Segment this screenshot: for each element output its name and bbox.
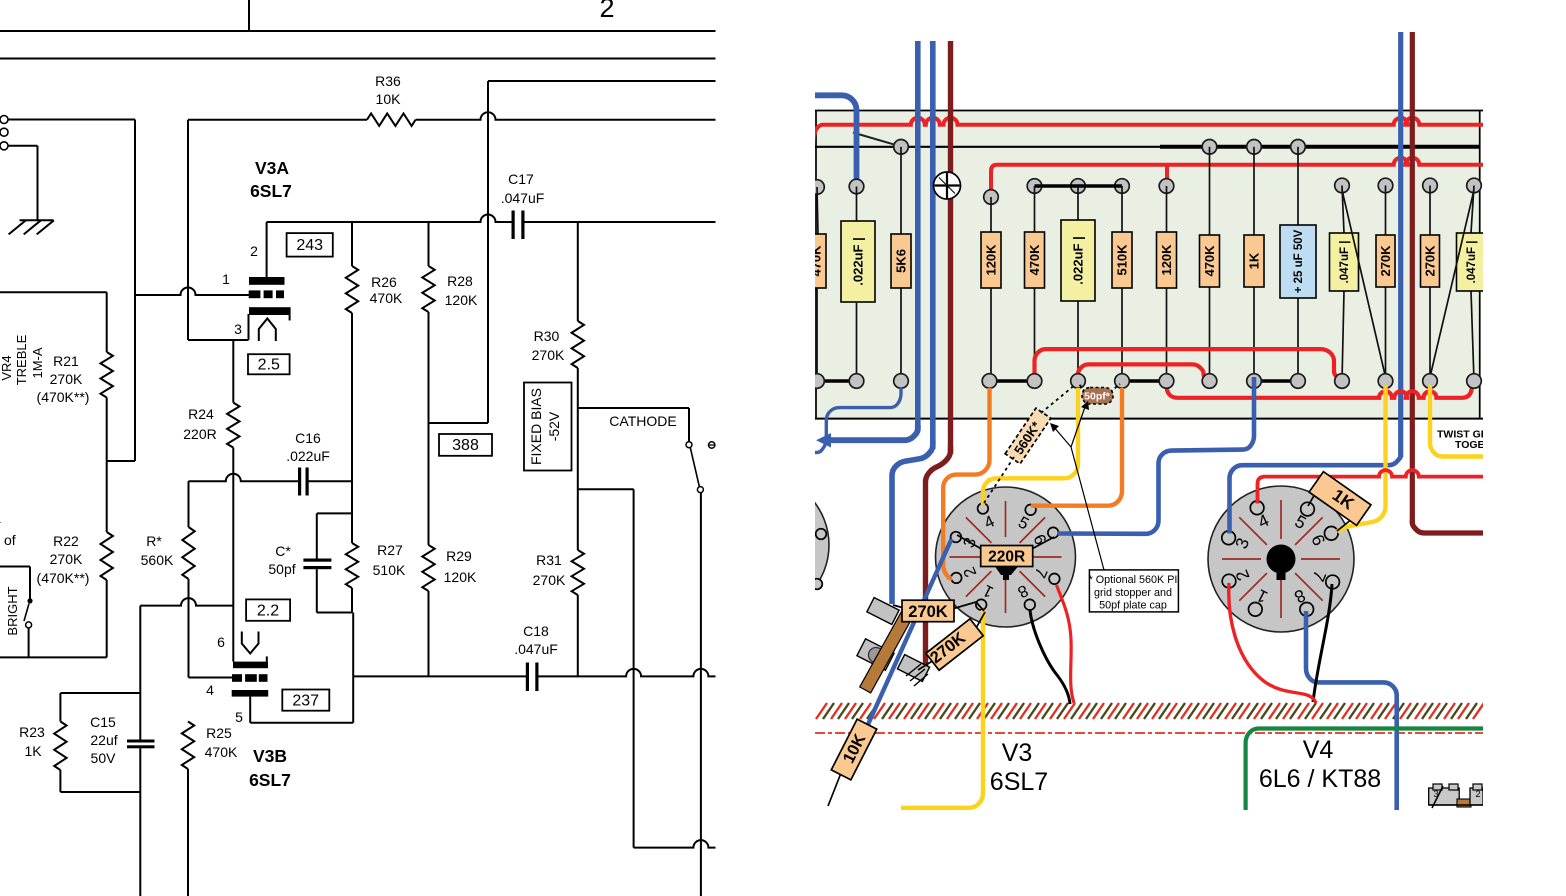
- svg-text:1K: 1K: [1247, 252, 1262, 269]
- node terminal strip lugs: [867, 598, 899, 625]
- resistor 120K a: [981, 232, 1001, 288]
- svg-text:R31: R31: [536, 552, 562, 568]
- wire green: [1246, 729, 1483, 811]
- wire yellow to V4 pin6: [1337, 385, 1386, 532]
- svg-text:220R: 220R: [988, 549, 1025, 566]
- wire output bus: [353, 675, 526, 677]
- svg-text:2.2: 2.2: [257, 603, 279, 620]
- node turret B9 bottom: [1202, 374, 1217, 389]
- wire component leads top: [817, 187, 818, 234]
- svg-text:.022uF: .022uF: [286, 448, 330, 464]
- switch CATHODE: [578, 407, 689, 409]
- node turret B11 bottom: [1291, 374, 1306, 389]
- capacitor .022uF mid: [1061, 220, 1095, 301]
- svg-text:5: 5: [235, 709, 243, 725]
- node turret T3 top: [894, 140, 909, 155]
- wire black V3 pin8: [1030, 610, 1070, 704]
- svg-text:560K: 560K: [141, 552, 174, 568]
- wire 560K dotted leads: [984, 457, 1014, 503]
- svg-text:* Optional 560K PI: * Optional 560K PI: [1089, 574, 1178, 586]
- svg-text:270K: 270K: [532, 347, 565, 363]
- wire grid of V3A: [135, 288, 249, 295]
- wire 1K leads: [1308, 487, 1319, 506]
- svg-text:V3: V3: [1002, 739, 1033, 767]
- svg-text:270K: 270K: [1423, 245, 1438, 277]
- tube V3A plate: [249, 277, 285, 285]
- svg-text:4: 4: [0, 512, 1, 528]
- svg-text:2: 2: [250, 243, 258, 259]
- svg-text:-52V: -52V: [546, 411, 562, 441]
- node 243 voltage box: [287, 233, 333, 257]
- svg-text:1M-A: 1M-A: [30, 347, 45, 378]
- node V4 center key: [1267, 545, 1296, 574]
- wire red bus top: [814, 118, 1484, 143]
- capacitor C* 50pf: [303, 559, 331, 562]
- resistor 270K b: [1421, 235, 1440, 287]
- svg-text:R25: R25: [206, 725, 232, 741]
- node turret B15 bottom: [1467, 374, 1482, 389]
- node turret T11 top: [1291, 140, 1306, 155]
- svg-text:120K: 120K: [444, 569, 477, 585]
- svg-text:R28: R28: [447, 273, 473, 289]
- svg-text:6: 6: [217, 634, 225, 650]
- svg-text:C18: C18: [523, 623, 549, 639]
- wire R36 feedback rail: [188, 119, 367, 121]
- svg-text:C16: C16: [295, 430, 321, 446]
- wire bright bottom rail: [0, 656, 107, 658]
- tube V3A cathode: [249, 307, 291, 315]
- wire B+ drop to 388 node: [487, 81, 489, 423]
- wire maroon vertical: [948, 41, 953, 454]
- wire cathode switch to bottom: [700, 493, 702, 896]
- svg-text:R24: R24: [188, 406, 214, 422]
- resistor 120K b: [1157, 232, 1177, 288]
- node turret T9 top: [1202, 140, 1217, 155]
- svg-text:R*: R*: [146, 533, 162, 549]
- svg-text:of: of: [4, 532, 16, 548]
- node turret T15 top: [1467, 178, 1482, 193]
- svg-text:.022uF |: .022uF |: [1071, 236, 1086, 284]
- wire bias bottom rail: [634, 840, 716, 847]
- node turret B5 bottom: [1027, 374, 1042, 389]
- svg-text:.047uF: .047uF: [501, 190, 545, 206]
- svg-text:FIXED BIAS: FIXED BIAS: [528, 388, 544, 465]
- resistor R28: [428, 222, 430, 266]
- node turret T6 top: [1071, 179, 1086, 194]
- node turret T2 top: [849, 179, 864, 194]
- node turret B6 bottom: [1071, 374, 1086, 389]
- svg-text:+ 25 uF 50V: + 25 uF 50V: [1293, 229, 1305, 293]
- wire red bottom bus: [1167, 385, 1473, 398]
- wire yellow pin1 down: [901, 610, 983, 808]
- wire maroon S to lug: [926, 446, 951, 668]
- wire blue heavy top left: [815, 95, 857, 183]
- node V3 key: [995, 567, 1018, 581]
- wire red 164: [991, 158, 1483, 192]
- resistor 270K grid: [902, 600, 954, 622]
- svg-text:470K: 470K: [1027, 244, 1042, 276]
- wire bypass bottom: [60, 791, 140, 793]
- node 388 voltage box: [439, 434, 492, 456]
- node turret T10 top: [1247, 140, 1262, 155]
- wire maroon right: [1410, 32, 1415, 524]
- svg-text:R36: R36: [375, 73, 401, 89]
- node turret B14 bottom: [1423, 374, 1438, 389]
- resistor R31: [572, 550, 584, 595]
- resistor R25: [182, 722, 194, 770]
- svg-text:6SL7: 6SL7: [249, 770, 291, 790]
- svg-text:1K: 1K: [24, 743, 42, 759]
- node 2.5 voltage box: [248, 354, 290, 374]
- svg-text:R21: R21: [53, 353, 79, 369]
- node turret B3 bottom: [894, 374, 909, 389]
- resistor 1K V4: [1309, 472, 1371, 526]
- node output jacks partial: [1429, 788, 1460, 805]
- tube socket V2 clipped: [689, 475, 829, 615]
- svg-text:270K: 270K: [50, 371, 83, 387]
- svg-text:(470K**): (470K**): [37, 570, 90, 586]
- wire blue thin from 5K6: [813, 388, 901, 453]
- resistor 220R: [981, 546, 1033, 567]
- resistor R22: [101, 532, 113, 580]
- svg-text:120K: 120K: [1159, 244, 1174, 276]
- wire input hot: [8, 119, 135, 121]
- wire blue to V3 pin6: [1058, 377, 1254, 534]
- svg-text:TOGET: TOGET: [1455, 439, 1492, 451]
- svg-text:10K: 10K: [376, 91, 402, 107]
- svg-text:R27: R27: [377, 542, 403, 558]
- svg-text:220R: 220R: [183, 426, 216, 442]
- svg-text:470K: 470K: [1202, 245, 1217, 277]
- wire red 349: [1035, 349, 1339, 378]
- wire component leads bottom: [816, 288, 818, 381]
- node FIXED BIAS box: [524, 383, 572, 471]
- svg-text:6SL7: 6SL7: [990, 768, 1048, 796]
- svg-text:270K: 270K: [533, 572, 566, 588]
- wire orange to pin5: [1031, 388, 1122, 506]
- capacitor .047uF b: [1457, 233, 1486, 291]
- capacitor C18: [526, 663, 529, 692]
- resistor R26: [351, 222, 353, 266]
- svg-text:470K: 470K: [809, 245, 824, 277]
- resistor 10K feedback: [828, 768, 843, 806]
- wire input sleeve to ground: [8, 145, 38, 147]
- tube V3B grid: [232, 674, 242, 682]
- wire black jumper diagonal: [853, 133, 901, 147]
- svg-text:50pf: 50pf: [268, 561, 295, 577]
- node turret T14 top: [1423, 178, 1438, 193]
- wire blue heavy arrow: [829, 425, 918, 440]
- svg-text:50pf plate cap: 50pf plate cap: [1099, 600, 1167, 612]
- wire V3B cathode node: [140, 598, 233, 606]
- wire red V4 pin4: [1258, 470, 1484, 503]
- wire bias feed: [578, 488, 634, 490]
- svg-text:22uf: 22uf: [90, 732, 117, 748]
- wire R36 to cathode pin3: [187, 120, 189, 340]
- wire treble pot to R21: [0, 291, 107, 293]
- wire V3B grid lead: [189, 677, 233, 679]
- wire cathode bypass top: [139, 606, 141, 740]
- node chassis edge hatch: [816, 703, 827, 719]
- capacitor 25uF electrolytic: [1280, 225, 1316, 298]
- tube V3A grid: [249, 290, 261, 298]
- wire maroon lower right: [1412, 520, 1483, 533]
- wire blue S to lug: [892, 441, 933, 604]
- svg-text:.047uF |: .047uF |: [1466, 241, 1478, 284]
- wire blue vertical pair: [915, 41, 921, 431]
- svg-text:6L6 / KT88: 6L6 / KT88: [1259, 765, 1381, 793]
- ground: [20, 219, 54, 221]
- node chassis screw: [934, 172, 961, 199]
- wire bus segment top: [1035, 184, 1123, 188]
- svg-text:50pf*: 50pf*: [1084, 391, 1111, 403]
- resistor 470K c: [1200, 235, 1220, 287]
- wire red 364: [1078, 364, 1207, 379]
- svg-text:388: 388: [452, 437, 479, 454]
- svg-text:.047uF: .047uF: [514, 641, 558, 657]
- capacitor .022uF left: [841, 221, 875, 302]
- svg-text:510K: 510K: [1115, 244, 1130, 276]
- node turret T13 top: [1378, 178, 1393, 193]
- node terminal strip bar: [860, 603, 917, 693]
- wire red V4 pin2: [1229, 583, 1316, 703]
- svg-text:2: 2: [599, 0, 614, 23]
- svg-text:3: 3: [1433, 789, 1438, 799]
- node turret T1 top: [810, 180, 825, 195]
- wire network top: [317, 512, 352, 514]
- wire black bus: [815, 146, 1162, 148]
- wire 220R leads: [957, 535, 985, 551]
- capacitor 50pf optional: [1079, 384, 1085, 392]
- wire blue diagonal to 10K: [866, 539, 952, 729]
- wire network bottom: [317, 612, 352, 614]
- node turret T7 top: [1115, 179, 1130, 194]
- svg-text:C17: C17: [508, 171, 534, 187]
- capacitor C16: [298, 468, 301, 496]
- resistor R36: [367, 114, 416, 126]
- svg-text:120K: 120K: [445, 292, 478, 308]
- wire C16 node: [189, 474, 299, 482]
- resistor R24: [232, 341, 234, 403]
- switch BRIGHT: [0, 566, 30, 568]
- resistor R23: [59, 693, 61, 722]
- resistor R30: [577, 222, 579, 321]
- svg-text:470K: 470K: [370, 290, 403, 306]
- node turret B10 bottom: [1247, 374, 1262, 389]
- node turret board: [815, 110, 1481, 419]
- node input jack terminals: [0, 116, 8, 124]
- node turret B8 bottom: [1159, 374, 1174, 389]
- node turret T8 top: [1159, 179, 1174, 194]
- resistor 1K board: [1244, 235, 1264, 287]
- capacitor C17: [512, 211, 515, 240]
- wire blue to V4 pin3: [1230, 455, 1401, 534]
- svg-text:270K: 270K: [1378, 245, 1393, 277]
- wire plate bus 243 node: [267, 215, 513, 222]
- resistor R21: [106, 292, 108, 352]
- svg-text:R23: R23: [19, 724, 45, 740]
- node turret T5 top: [1027, 179, 1042, 194]
- svg-text:.047uF |: .047uF |: [1339, 241, 1351, 284]
- node note box: [1071, 447, 1104, 570]
- svg-text:2: 2: [1475, 789, 1480, 799]
- svg-text:3: 3: [234, 321, 242, 337]
- svg-text:5K6: 5K6: [894, 249, 909, 273]
- wire yellow right exit: [1430, 385, 1483, 457]
- capacitor C15: [127, 740, 155, 743]
- wire 270K rot leads: [975, 612, 985, 630]
- resistor 470K b: [1025, 232, 1045, 288]
- node turret B2 bottom: [849, 374, 864, 389]
- svg-text:V3A: V3A: [255, 158, 289, 178]
- resistor 470K clipped: [806, 234, 826, 288]
- wire top rail 2: [0, 58, 716, 60]
- wire R21 bottom to grid feed: [106, 398, 108, 533]
- wire B+ rail: [488, 80, 716, 82]
- tube V3A heater: [259, 319, 276, 342]
- resistor 5K6: [891, 234, 911, 288]
- wire V3B plate out: [249, 697, 251, 723]
- svg-text:4: 4: [206, 682, 214, 698]
- wire yellow to pin4: [983, 388, 1078, 505]
- svg-text:237: 237: [292, 693, 319, 710]
- svg-text:.022uF |: .022uF |: [851, 237, 866, 285]
- svg-text:C15: C15: [90, 714, 116, 730]
- node turret B1 bottom: [810, 374, 825, 389]
- wire blue V4 pin8 down: [1306, 611, 1397, 810]
- resistor 510K: [1112, 232, 1132, 288]
- wire red V3 pin7: [1057, 585, 1075, 703]
- resistor R29: [428, 423, 430, 545]
- svg-text:(470K**): (470K**): [37, 389, 90, 405]
- svg-text:R30: R30: [534, 328, 560, 344]
- capacitor .047uF a: [1330, 233, 1359, 291]
- svg-text:CATHODE: CATHODE: [609, 413, 676, 429]
- svg-text:270K: 270K: [50, 551, 83, 567]
- tube V3B heater: [242, 632, 259, 654]
- wire grid feed vertical: [134, 120, 136, 462]
- resistor R27: [346, 543, 358, 588]
- svg-text:270K: 270K: [908, 603, 948, 621]
- wire top rail 1: [0, 30, 716, 32]
- wire 270K h leads: [893, 605, 904, 608]
- svg-text:VR4: VR4: [0, 355, 14, 380]
- tube V3B cathode: [233, 662, 268, 669]
- tube socket V3: [936, 487, 1076, 627]
- svg-text:R29: R29: [446, 548, 472, 564]
- svg-text:2.5: 2.5: [258, 357, 280, 374]
- resistor R* 560K: [188, 481, 190, 527]
- svg-text:243: 243: [296, 237, 323, 254]
- svg-text:50V: 50V: [91, 750, 117, 766]
- svg-text:470K: 470K: [205, 744, 238, 760]
- svg-text:grid stopper and: grid stopper and: [1094, 587, 1172, 599]
- svg-text:1: 1: [222, 271, 230, 287]
- svg-text:TREBLE: TREBLE: [14, 334, 29, 385]
- node turret T4 top: [984, 190, 999, 205]
- node turret B12 bottom: [1335, 374, 1350, 389]
- wire bus segments bottom: [817, 379, 857, 383]
- wire blue right pair: [1398, 32, 1403, 457]
- tube socket V4: [1208, 486, 1354, 632]
- node turret B4 bottom: [982, 374, 997, 389]
- svg-text:R22: R22: [53, 533, 79, 549]
- svg-text:C*: C*: [275, 543, 291, 559]
- svg-text:BRIGHT: BRIGHT: [5, 586, 20, 635]
- node turret B13 bottom: [1378, 374, 1393, 389]
- resistor 560K optional: [1005, 408, 1051, 464]
- node 2.2 voltage box: [246, 599, 290, 620]
- svg-text:V3B: V3B: [253, 746, 287, 766]
- wire cap diagonal leads: [1342, 190, 1386, 377]
- svg-text:6SL7: 6SL7: [250, 181, 292, 201]
- svg-text:R26: R26: [371, 274, 397, 290]
- resistor 270K a: [1376, 235, 1395, 287]
- svg-text:510K: 510K: [373, 562, 406, 578]
- resistor 270K plate: [926, 619, 983, 670]
- wire orange to pin2: [943, 388, 989, 578]
- svg-text:120K: 120K: [984, 244, 999, 276]
- wire black V4 pin7: [1313, 584, 1332, 702]
- node turret T12 top: [1335, 178, 1350, 193]
- node chassis fold dashed red: [815, 732, 1483, 734]
- svg-text:V4: V4: [1303, 736, 1334, 764]
- tube V3B plate: [232, 690, 269, 697]
- wire lug hatch leads: [906, 664, 921, 676]
- wire stub to sheet 2: [248, 0, 250, 31]
- node turret B7 bottom: [1115, 374, 1130, 389]
- node 237 voltage box: [282, 690, 329, 711]
